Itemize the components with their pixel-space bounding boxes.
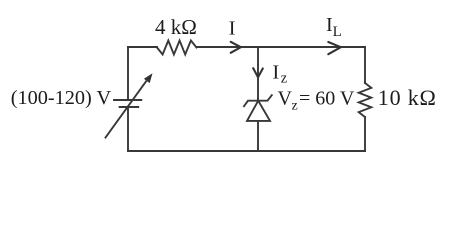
svg-text:I: I <box>273 62 280 84</box>
wire middle branch lower <box>257 121 259 151</box>
variable source arrow shaft <box>106 82 147 138</box>
svg-text:= 60 V: = 60 V <box>299 88 355 110</box>
wire right branch lower <box>364 117 366 151</box>
wire right branch upper <box>364 47 366 83</box>
wire bottom <box>128 150 365 152</box>
svg-text:z: z <box>281 70 288 86</box>
variable source arrowhead (solid) <box>144 73 153 83</box>
zener diode triangle <box>247 101 270 121</box>
svg-text:4 kΩ: 4 kΩ <box>155 15 197 39</box>
arrowhead current IL (open chevron) <box>328 42 341 54</box>
arrowhead current Iz (open chevron) <box>253 68 263 77</box>
wire left branch lower <box>127 107 129 151</box>
variable source short bar <box>120 106 139 108</box>
resistor 10 kOhm zigzag <box>359 83 372 117</box>
svg-text:(100-120) V: (100-120) V <box>11 87 112 109</box>
wire top middle (resistor to node) <box>197 46 259 48</box>
wire top left (corner to resistor) <box>128 46 157 48</box>
svg-text:IL: IL <box>326 14 342 40</box>
wire top right (node to corner) <box>258 46 365 48</box>
variable source long bar <box>114 99 141 101</box>
svg-text:z: z <box>292 99 298 114</box>
wire left branch upper <box>127 47 129 100</box>
arrowhead current I (open chevron) <box>231 42 241 53</box>
svg-text:V: V <box>278 88 293 110</box>
svg-text:10 kΩ: 10 kΩ <box>378 85 437 110</box>
svg-text:I: I <box>229 17 236 39</box>
wire middle branch upper <box>257 47 259 101</box>
resistor 4 kOhm zigzag <box>157 41 197 55</box>
zener diode cathode bar with bent ends <box>244 95 272 106</box>
